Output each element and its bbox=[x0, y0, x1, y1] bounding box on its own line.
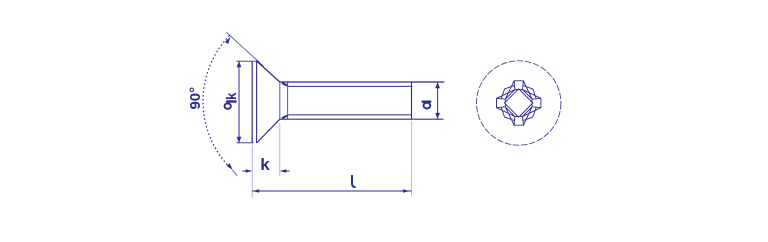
svg-text:k: k bbox=[224, 92, 239, 100]
d arrow up bbox=[435, 82, 440, 88]
90deg arc tail bottom bbox=[232, 170, 237, 176]
dk dimension line bbox=[238, 61, 240, 142]
l dimension line bbox=[252, 190, 411, 192]
label d (rotated) bbox=[422, 100, 432, 102]
d arrow down bbox=[435, 113, 440, 119]
screw head flat face (inner line) bbox=[256, 61, 258, 143]
label dk - letter d (rotated) bbox=[226, 100, 236, 102]
screw end line bbox=[411, 82, 413, 119]
head-shank junction line bbox=[279, 82, 281, 119]
dk arrow up bbox=[237, 61, 242, 67]
phillips cross recess bbox=[497, 81, 541, 125]
90deg dotted arc bbox=[203, 36, 232, 170]
head outline circle (top view) bbox=[477, 61, 561, 145]
label l bbox=[352, 175, 356, 187]
dk extension line top bbox=[236, 60, 258, 62]
l right extension line bbox=[411, 121, 413, 197]
90deg extension line (cone edge extended) bbox=[226, 32, 263, 66]
k arrow right (outside) bbox=[285, 170, 290, 172]
90deg arc arrow bottom bbox=[227, 163, 233, 170]
dk arrow down bbox=[237, 137, 242, 143]
svg-text:90°: 90° bbox=[187, 87, 204, 110]
l arrow right bbox=[403, 189, 410, 192]
countersunk cone bottom edge bbox=[257, 119, 280, 143]
k extension line right bbox=[279, 123, 281, 177]
thread root top line bbox=[288, 85, 412, 87]
l arrow left bbox=[252, 189, 259, 192]
svg-text:k: k bbox=[260, 155, 270, 174]
dk extension line bottom bbox=[236, 142, 253, 144]
l left extension line bbox=[251, 145, 253, 198]
thread runout bottom bbox=[282, 116, 287, 118]
d dimension line bbox=[437, 82, 439, 119]
k arrow left (outside) bbox=[242, 170, 247, 172]
shank bottom edge + d extension bbox=[280, 118, 444, 120]
thread root bottom line bbox=[288, 114, 412, 116]
thread runout top bbox=[282, 83, 287, 85]
screw head flat face (outer line) bbox=[251, 61, 253, 143]
shank top edge + d extension bbox=[280, 81, 445, 83]
90deg arc arrow top bbox=[225, 37, 231, 44]
thread start line bbox=[287, 82, 289, 119]
countersunk cone top edge bbox=[257, 61, 280, 82]
